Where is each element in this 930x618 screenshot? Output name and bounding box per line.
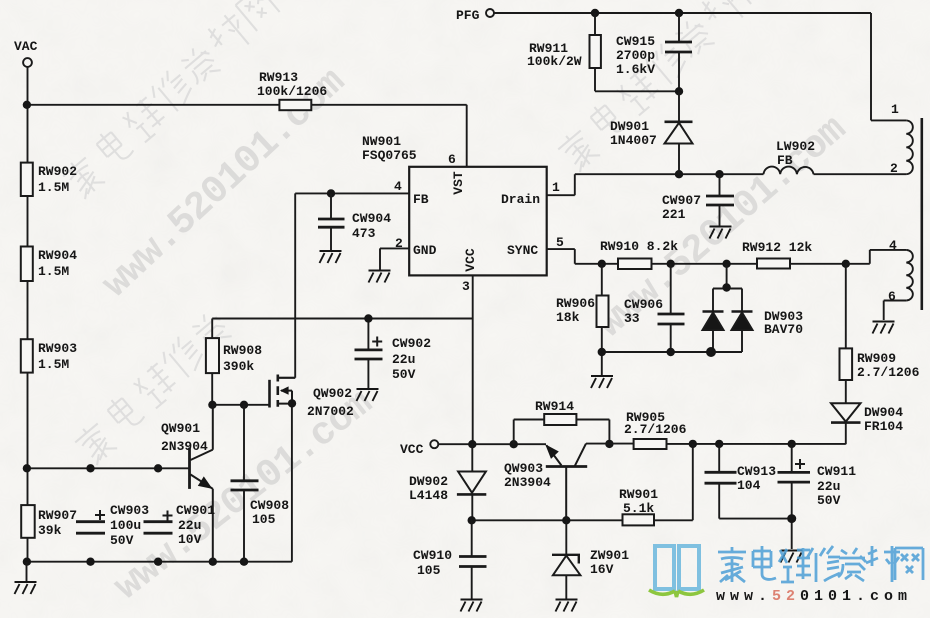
svg-text:DW904: DW904 bbox=[864, 405, 903, 420]
capacitor CW906 bbox=[658, 314, 685, 324]
svg-text:DW902: DW902 bbox=[409, 474, 448, 489]
resistor RW903 bbox=[21, 339, 33, 372]
svg-text:2: 2 bbox=[395, 236, 403, 251]
svg-text:22u: 22u bbox=[178, 518, 201, 533]
capacitor CW904 bbox=[318, 219, 345, 227]
resistor RW901 bbox=[623, 514, 655, 525]
svg-text:CW913: CW913 bbox=[737, 464, 776, 479]
wire PFG rail to transformer pin1 bbox=[494, 13, 906, 120]
wire RW906 column bbox=[601, 264, 603, 352]
wire base rail QW903 bbox=[472, 444, 693, 520]
wire ZW901 column bbox=[565, 520, 567, 598]
wire Drain pin to top rail bbox=[547, 174, 907, 195]
wire sync ground rail bbox=[602, 352, 742, 375]
svg-text:104: 104 bbox=[737, 478, 761, 493]
resistor RW912 bbox=[757, 259, 790, 269]
svg-text:4: 4 bbox=[889, 238, 897, 253]
capacitor CW903 polarized bbox=[76, 510, 105, 533]
svg-text:CW902: CW902 bbox=[392, 336, 431, 351]
svg-text:Drain: Drain bbox=[501, 192, 540, 207]
node junction VCC pin column bbox=[468, 440, 476, 448]
svg-text:VCC: VCC bbox=[400, 442, 424, 457]
ground IC pin2 bbox=[369, 271, 391, 283]
svg-text:CW904: CW904 bbox=[352, 211, 391, 226]
ground below CW910 bbox=[461, 600, 483, 612]
diode DW904 FR104 bbox=[831, 403, 861, 422]
inductor LW902 bbox=[764, 167, 814, 175]
svg-text:33: 33 bbox=[624, 311, 640, 326]
svg-text:RW904: RW904 bbox=[38, 248, 77, 263]
svg-text:CW907: CW907 bbox=[662, 193, 701, 208]
svg-text:100k/2W: 100k/2W bbox=[527, 54, 582, 69]
svg-text:2N7002: 2N7002 bbox=[307, 404, 354, 419]
transistor QW901 2N3904 bbox=[190, 405, 213, 562]
node junction ZW901 top bbox=[562, 516, 570, 524]
svg-text:CW910: CW910 bbox=[413, 548, 452, 563]
wire gate rail bbox=[211, 404, 269, 406]
svg-text:RW913: RW913 bbox=[259, 70, 298, 85]
watermark hanzi row top-left bbox=[60, 0, 280, 201]
watermark hanzi row top-right bbox=[555, 0, 774, 174]
node VCC terminal bbox=[430, 440, 438, 448]
svg-text:4: 4 bbox=[394, 179, 402, 194]
svg-text:2700p: 2700p bbox=[616, 48, 655, 63]
svg-text:VST: VST bbox=[451, 171, 466, 195]
svg-text:50V: 50V bbox=[817, 493, 841, 508]
node junction sync ground dots bbox=[598, 347, 716, 357]
wire CW915 column bbox=[678, 13, 680, 91]
node junction RW914 right / QW903 collector bbox=[605, 440, 613, 448]
svg-text:LW902: LW902 bbox=[776, 139, 815, 154]
svg-text:105: 105 bbox=[252, 512, 276, 527]
svg-text:473: 473 bbox=[352, 226, 376, 241]
node junction CW903 top bbox=[86, 464, 94, 472]
svg-text:100k/1206: 100k/1206 bbox=[257, 84, 327, 99]
wire QW903 collector to RW905 bbox=[586, 443, 634, 445]
ground below VAC divider bbox=[15, 562, 37, 594]
svg-text:100u: 100u bbox=[110, 518, 141, 533]
wire RW914 loop bbox=[514, 420, 610, 445]
svg-text:L4148: L4148 bbox=[409, 488, 448, 503]
resistor RW911 bbox=[590, 35, 601, 68]
wire CW902 column bbox=[367, 319, 369, 389]
transformer T primary winding bbox=[906, 120, 913, 174]
logo site name hanzi bbox=[718, 546, 923, 582]
svg-text:RW908: RW908 bbox=[223, 343, 262, 358]
ground below aux winding bbox=[873, 322, 895, 334]
svg-text:FSQ0765: FSQ0765 bbox=[362, 148, 417, 163]
capacitor CW908 bbox=[231, 481, 259, 490]
svg-text:221: 221 bbox=[662, 207, 686, 222]
resistor RW908 bbox=[206, 338, 219, 373]
svg-text:CW906: CW906 bbox=[624, 297, 663, 312]
node PFG terminal bbox=[486, 9, 494, 17]
svg-text:1: 1 bbox=[891, 102, 899, 117]
wire SYNC pin to rail bbox=[547, 249, 846, 264]
svg-text:DW901: DW901 bbox=[610, 119, 649, 134]
svg-text:39k: 39k bbox=[38, 523, 62, 538]
wire aux winding top bbox=[846, 250, 907, 264]
svg-text:1: 1 bbox=[552, 180, 560, 195]
svg-text:6: 6 bbox=[888, 289, 896, 304]
resistor RW913 bbox=[279, 100, 311, 110]
svg-text:CW911: CW911 bbox=[817, 464, 856, 479]
resistor RW902 bbox=[21, 163, 33, 196]
node junction bottom rail dots bbox=[23, 558, 249, 566]
wire RW908 column bbox=[211, 319, 213, 405]
svg-text:1.6kV: 1.6kV bbox=[616, 62, 655, 77]
node junction CW911 bottom bbox=[787, 514, 796, 523]
svg-text:FR104: FR104 bbox=[864, 419, 903, 434]
watermark hanzi row bottom-left bbox=[72, 308, 233, 466]
node junction CW902 top bbox=[364, 314, 372, 322]
wire bottom-left ground rail bbox=[27, 403, 292, 561]
capacitor CW902 polarized bbox=[355, 337, 383, 360]
wire CW911 column bbox=[791, 444, 793, 549]
node junction CW911 top bbox=[788, 440, 796, 448]
node junction gate rail bbox=[208, 401, 216, 409]
node junction FB / CW904 bbox=[327, 189, 335, 197]
diode DW901 1N4007 bbox=[665, 122, 693, 144]
logo book icon bbox=[655, 546, 699, 589]
wire DW902 column bbox=[471, 444, 473, 520]
svg-text:BAV70: BAV70 bbox=[764, 322, 803, 337]
svg-text:16V: 16V bbox=[590, 562, 614, 577]
svg-text:18k: 18k bbox=[556, 310, 580, 325]
resistor RW910 bbox=[618, 259, 652, 270]
svg-text:22u: 22u bbox=[817, 479, 840, 494]
ground below CW904 bbox=[320, 251, 342, 263]
node junction CW908 top bbox=[240, 401, 248, 409]
svg-text:2N3904: 2N3904 bbox=[161, 439, 208, 454]
wire CW907 column bbox=[719, 174, 721, 225]
wire top rail VAC to IC pin6 bbox=[27, 105, 467, 167]
svg-text:VCC: VCC bbox=[463, 248, 478, 272]
wire VAC column vertical bbox=[27, 67, 29, 562]
svg-text:CW903: CW903 bbox=[110, 503, 149, 518]
svg-text:FB: FB bbox=[777, 153, 793, 168]
svg-text:QW903: QW903 bbox=[504, 461, 543, 476]
node junction DW901 bottom bbox=[675, 170, 683, 178]
node junction RW901 riser top bbox=[689, 440, 697, 448]
ground below CW902 bbox=[357, 389, 379, 401]
capacitor CW907 bbox=[706, 196, 734, 205]
svg-text:RW907: RW907 bbox=[38, 508, 77, 523]
svg-text:FB: FB bbox=[413, 192, 429, 207]
ground below CW911 bbox=[781, 551, 803, 563]
svg-text:CW901: CW901 bbox=[176, 503, 215, 518]
ground below RW906 bbox=[591, 376, 613, 388]
svg-text:RW910 8.2k: RW910 8.2k bbox=[600, 239, 678, 254]
svg-text:QW902: QW902 bbox=[313, 386, 352, 401]
svg-text:GND: GND bbox=[413, 243, 437, 258]
svg-text:3: 3 bbox=[462, 279, 470, 294]
wire CW913 column bbox=[719, 444, 792, 519]
node junction CW915 bottom bbox=[675, 87, 683, 95]
resistor RW914 bbox=[544, 414, 576, 425]
capacitor CW910 bbox=[459, 557, 487, 567]
svg-text:VAC: VAC bbox=[14, 39, 38, 54]
node junction CW901 top bbox=[154, 464, 162, 472]
diode DW903 BAV70 dual bbox=[703, 312, 753, 331]
svg-text:1N4007: 1N4007 bbox=[610, 133, 657, 148]
node junction sync rail dots bbox=[598, 260, 850, 268]
diode DW902 L4148 bbox=[457, 472, 486, 495]
capacitor CW913 bbox=[705, 472, 737, 483]
svg-text:50V: 50V bbox=[392, 367, 416, 382]
svg-text:CW908: CW908 bbox=[250, 498, 289, 513]
svg-text:QW901: QW901 bbox=[161, 421, 200, 436]
wire CW904 column bbox=[330, 193, 332, 250]
svg-text:5: 5 bbox=[556, 235, 564, 250]
svg-text:2.7/1206: 2.7/1206 bbox=[857, 365, 920, 380]
transformer T aux winding bbox=[906, 250, 913, 301]
resistor RW906 bbox=[597, 296, 609, 328]
ground below ZW901 bbox=[556, 600, 578, 612]
node junction CW915 top bbox=[675, 9, 683, 17]
node junction CW913 top bbox=[715, 440, 723, 448]
wire QW901 base line bbox=[27, 467, 189, 469]
node junction CW907 top bbox=[715, 170, 723, 178]
node junction VAC rail bbox=[23, 101, 31, 109]
wire VCC top rail bbox=[212, 318, 473, 320]
svg-text:10V: 10V bbox=[178, 532, 202, 547]
capacitor CW901 polarized bbox=[144, 511, 173, 534]
resistor RW909 bbox=[840, 348, 853, 380]
svg-text:1.5M: 1.5M bbox=[38, 180, 69, 195]
wire CW908 column bbox=[243, 405, 245, 562]
op-amp U1 IC NW901 FSQ0765 bbox=[409, 167, 547, 276]
wire VCC rail right bbox=[667, 443, 846, 445]
svg-text:RW914: RW914 bbox=[535, 399, 574, 414]
svg-text:6: 6 bbox=[448, 152, 456, 167]
svg-text:2.7/1206: 2.7/1206 bbox=[624, 422, 687, 437]
node junction RW914 left bbox=[510, 440, 518, 448]
svg-text:105: 105 bbox=[417, 563, 441, 578]
svg-text:2: 2 bbox=[890, 161, 898, 176]
svg-text:RW906: RW906 bbox=[556, 296, 595, 311]
svg-text:RW909: RW909 bbox=[857, 351, 896, 366]
svg-text:1.5M: 1.5M bbox=[38, 357, 69, 372]
svg-text:SYNC: SYNC bbox=[507, 243, 538, 258]
wire FB to QW902 drain vertical bbox=[279, 193, 295, 377]
resistor RW904 bbox=[21, 247, 33, 282]
svg-text:PFG: PFG bbox=[456, 8, 480, 23]
wire RW909 column bbox=[845, 264, 847, 444]
wire CW910 column bbox=[471, 520, 473, 598]
resistor RW907 bbox=[21, 505, 35, 538]
wire DW901 column bbox=[678, 91, 680, 174]
wire VCC rail left bbox=[438, 443, 546, 445]
node junction base line left bbox=[23, 464, 31, 472]
resistor RW905 bbox=[634, 439, 667, 449]
transformer T core bbox=[920, 118, 923, 310]
svg-text:NW901: NW901 bbox=[362, 134, 401, 149]
svg-text:5.1k: 5.1k bbox=[623, 501, 654, 516]
svg-text:RW902: RW902 bbox=[38, 164, 77, 179]
wire CW906 column bbox=[670, 264, 672, 352]
svg-text:RW903: RW903 bbox=[38, 341, 77, 356]
wire IC pin3 VCC column bbox=[472, 275, 474, 444]
capacitor CW915 bbox=[665, 42, 692, 52]
svg-text:CW915: CW915 bbox=[616, 34, 655, 49]
svg-text:22u: 22u bbox=[392, 352, 415, 367]
node junction DW902 bottom bbox=[468, 516, 476, 524]
capacitor CW911 polarized bbox=[778, 459, 811, 482]
svg-text:ZW901: ZW901 bbox=[590, 548, 629, 563]
wire FB pin bbox=[295, 192, 409, 194]
wire DW903 common cathode bbox=[713, 264, 742, 352]
svg-text:www.520101.com: www.520101.com bbox=[716, 588, 912, 605]
wire GND pin 2 bbox=[380, 248, 409, 269]
wire aux winding bottom bbox=[884, 301, 907, 321]
svg-text:RW901: RW901 bbox=[619, 487, 658, 502]
transistor QW902 2N7002 bbox=[270, 375, 297, 408]
svg-text:RW912 12k: RW912 12k bbox=[742, 240, 812, 255]
node VAC terminal bbox=[23, 58, 32, 67]
node junction RW911 top bbox=[591, 9, 599, 17]
node junction DW903 top bbox=[722, 283, 730, 291]
svg-text:390k: 390k bbox=[223, 359, 254, 374]
svg-text:2N3904: 2N3904 bbox=[504, 475, 551, 490]
svg-text:1.5M: 1.5M bbox=[38, 264, 69, 279]
wire RW911 column bbox=[595, 13, 679, 91]
transistor QW903 2N3904 bbox=[545, 444, 587, 520]
svg-text:50V: 50V bbox=[110, 533, 134, 548]
ground below CW907 bbox=[710, 227, 732, 239]
zener ZW901 16V bbox=[552, 555, 580, 575]
